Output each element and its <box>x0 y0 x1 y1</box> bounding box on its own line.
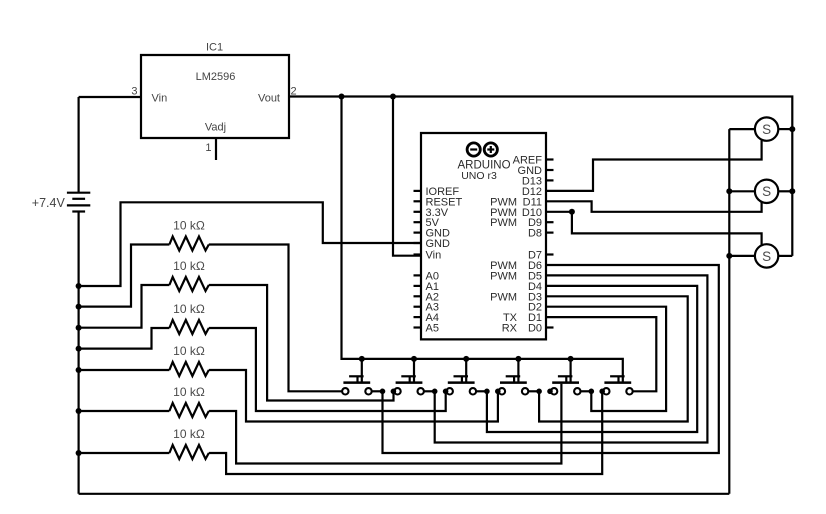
svg-text:A5: A5 <box>426 323 439 335</box>
svg-text:10 kΩ: 10 kΩ <box>173 259 205 273</box>
svg-text:IC1: IC1 <box>206 42 223 54</box>
svg-text:PWM: PWM <box>490 270 517 282</box>
svg-text:UNO r3: UNO r3 <box>461 170 497 182</box>
svg-text:PWM: PWM <box>490 291 517 303</box>
svg-text:D0: D0 <box>528 323 542 335</box>
svg-text:S: S <box>762 184 771 199</box>
svg-text:RX: RX <box>502 323 518 335</box>
svg-text:+7.4V: +7.4V <box>32 196 66 210</box>
svg-text:Vin: Vin <box>152 93 168 105</box>
svg-text:Vin: Vin <box>426 250 442 262</box>
svg-text:10 kΩ: 10 kΩ <box>173 218 205 232</box>
svg-text:10 kΩ: 10 kΩ <box>173 344 205 358</box>
svg-text:PWM: PWM <box>490 217 517 229</box>
svg-text:10 kΩ: 10 kΩ <box>173 427 205 441</box>
svg-text:S: S <box>762 122 771 137</box>
svg-text:S: S <box>762 249 771 264</box>
svg-text:GND: GND <box>426 238 451 250</box>
svg-text:2: 2 <box>291 86 297 98</box>
svg-text:Vout: Vout <box>258 93 280 105</box>
svg-text:10 kΩ: 10 kΩ <box>173 302 205 316</box>
svg-text:1: 1 <box>205 142 211 154</box>
svg-text:D8: D8 <box>528 228 542 240</box>
svg-text:10 kΩ: 10 kΩ <box>173 385 205 399</box>
svg-text:LM2596: LM2596 <box>196 71 236 83</box>
svg-text:3: 3 <box>131 86 137 98</box>
svg-text:Vadj: Vadj <box>205 122 226 134</box>
